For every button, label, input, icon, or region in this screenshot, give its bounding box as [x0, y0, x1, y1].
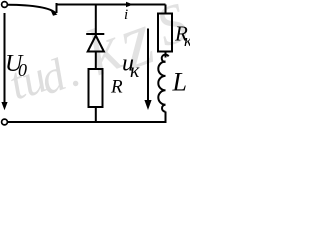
svg-text:0: 0 — [18, 60, 27, 80]
svg-text:к: к — [184, 31, 190, 50]
svg-text:к: к — [130, 60, 140, 82]
svg-text:i: i — [124, 7, 128, 23]
svg-text:R: R — [110, 77, 123, 98]
svg-text:L: L — [172, 68, 187, 97]
